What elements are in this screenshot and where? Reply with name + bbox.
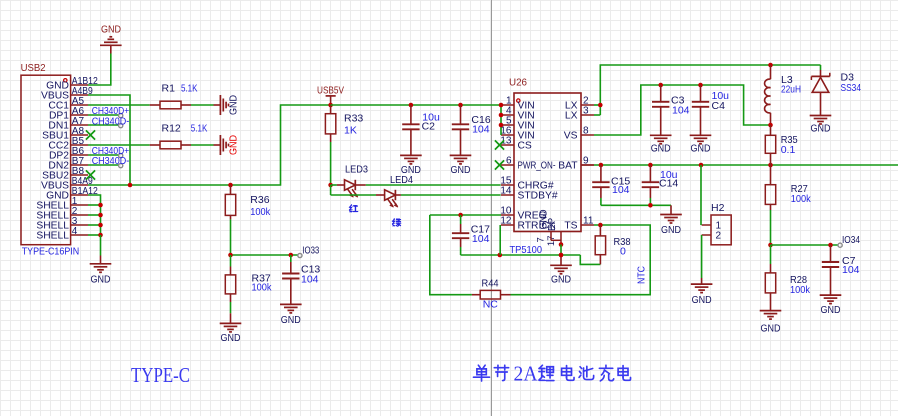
svg-text:EP: EP: [547, 218, 558, 232]
svg-text:LX: LX: [565, 111, 578, 122]
svg-text:0: 0: [620, 246, 626, 258]
svg-text:12: 12: [500, 216, 512, 227]
svg-text:GND: GND: [651, 143, 671, 155]
svg-text:GND: GND: [821, 304, 841, 316]
svg-text:1K: 1K: [344, 125, 357, 137]
svg-text:CH340D-: CH340D-: [92, 155, 130, 167]
svg-text:GND: GND: [661, 224, 681, 236]
svg-text:TS: TS: [564, 221, 577, 232]
svg-text:5.1K: 5.1K: [181, 83, 198, 95]
svg-text:11: 11: [583, 216, 594, 227]
svg-text:R44: R44: [482, 278, 499, 290]
svg-text:GND: GND: [551, 274, 571, 286]
svg-text:100k: 100k: [252, 282, 273, 294]
svg-text:VS: VS: [564, 131, 578, 142]
svg-text:PWR_ON-: PWR_ON-: [518, 161, 556, 172]
svg-text:NC: NC: [483, 299, 499, 311]
svg-text:R33: R33: [344, 113, 363, 125]
svg-text:NTC: NTC: [636, 266, 648, 284]
svg-text:100k: 100k: [791, 193, 812, 205]
svg-text:GND: GND: [281, 314, 301, 326]
svg-text:8: 8: [583, 126, 589, 137]
svg-text:104: 104: [472, 233, 490, 245]
svg-text:104: 104: [842, 264, 860, 276]
svg-text:C4: C4: [712, 100, 726, 112]
svg-text:13: 13: [500, 136, 512, 147]
svg-text:SS34: SS34: [841, 82, 862, 94]
svg-text:USB5V: USB5V: [317, 85, 344, 97]
svg-text:USB2: USB2: [21, 62, 46, 74]
svg-text:GND: GND: [761, 323, 781, 335]
svg-text:LED3: LED3: [345, 164, 368, 176]
svg-text:H2: H2: [711, 202, 725, 214]
svg-text:0.1: 0.1: [781, 144, 796, 156]
svg-text:CS: CS: [518, 141, 532, 152]
svg-text:104: 104: [472, 123, 490, 135]
svg-text:104: 104: [612, 184, 630, 196]
svg-text:GND: GND: [691, 143, 711, 155]
svg-text:GND: GND: [228, 95, 240, 115]
svg-text:R12: R12: [162, 123, 181, 135]
svg-text:C2: C2: [422, 121, 436, 133]
svg-text:GND: GND: [451, 164, 471, 176]
svg-text:BAT: BAT: [558, 161, 578, 172]
svg-text:14: 14: [500, 186, 512, 197]
svg-text:C14: C14: [659, 178, 678, 190]
svg-text:5.1K: 5.1K: [191, 123, 208, 135]
svg-text:2A: 2A: [514, 362, 538, 386]
svg-text:GND: GND: [221, 332, 241, 344]
svg-text:3: 3: [583, 106, 589, 117]
svg-text:TYPE-C: TYPE-C: [131, 363, 190, 387]
svg-text:SHELL: SHELL: [36, 231, 69, 242]
svg-text:GND: GND: [811, 123, 831, 135]
svg-text:U26: U26: [509, 77, 527, 89]
svg-text:104: 104: [301, 274, 319, 286]
svg-text:IO33: IO33: [302, 245, 319, 257]
svg-text:6: 6: [506, 156, 512, 167]
svg-text:TYPE-C16PIN: TYPE-C16PIN: [22, 245, 79, 257]
svg-text:22uH: 22uH: [781, 84, 801, 96]
svg-text:GND: GND: [692, 294, 712, 306]
svg-text:R36: R36: [250, 194, 269, 206]
svg-text:2: 2: [716, 231, 722, 242]
svg-text:100k: 100k: [790, 284, 811, 296]
svg-text:104: 104: [672, 104, 690, 116]
svg-text:LED4: LED4: [390, 174, 413, 186]
svg-text:100k: 100k: [250, 206, 271, 218]
svg-text:GND: GND: [91, 274, 111, 286]
svg-text:GND: GND: [101, 24, 121, 36]
svg-text:R1: R1: [162, 83, 176, 95]
svg-text:GND: GND: [228, 135, 240, 155]
svg-text:STDBY#: STDBY#: [518, 191, 558, 202]
svg-text:IO34: IO34: [842, 234, 860, 246]
svg-text:7: 7: [536, 237, 547, 242]
svg-text:CH340D-: CH340D-: [92, 116, 130, 128]
